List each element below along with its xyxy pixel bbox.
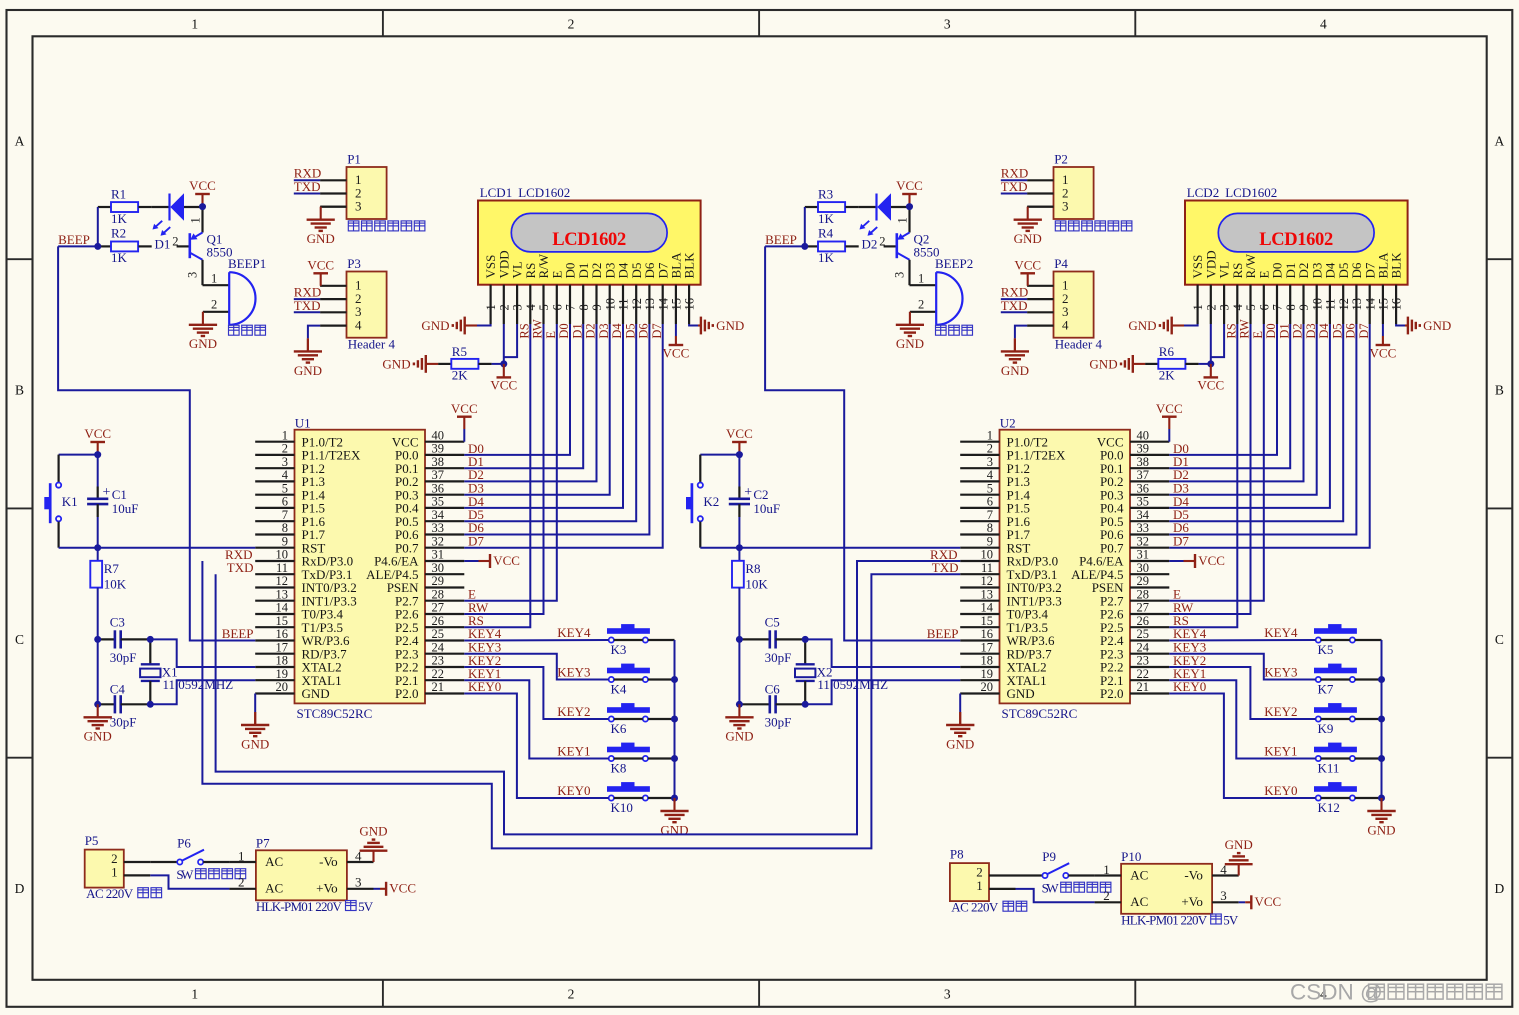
wire P-in pin1 to module [150, 875, 229, 888]
svg-text:K3: K3 [611, 642, 627, 657]
net label RS rotated [1225, 323, 1239, 338]
svg-text:1: 1 [918, 272, 924, 286]
module P7 HLK-PM01 [229, 836, 373, 901]
svg-text:29: 29 [432, 574, 445, 588]
svg-text:D: D [15, 881, 25, 896]
svg-text:10K: 10K [745, 577, 768, 592]
pin 37 P0.2 [1100, 468, 1169, 489]
push button K4 [608, 664, 650, 696]
wire key to rail [648, 639, 675, 641]
svg-text:C4: C4 [110, 682, 126, 697]
net label D6 [1173, 520, 1189, 535]
svg-text:18: 18 [981, 654, 994, 668]
svg-text:4: 4 [282, 468, 289, 482]
net label D3 rotated [597, 323, 611, 338]
svg-text:11.0592MHZ: 11.0592MHZ [817, 677, 888, 692]
net label D4 [468, 494, 484, 509]
svg-text:10K: 10K [104, 577, 127, 592]
svg-text:3: 3 [1062, 199, 1069, 214]
net label BEEP [58, 232, 98, 247]
svg-text:18: 18 [276, 654, 289, 668]
pin 4 P1.3 [960, 468, 1030, 489]
resistor R5 [438, 344, 504, 382]
wire D0 bus [1169, 324, 1277, 455]
svg-text:R1: R1 [111, 186, 126, 201]
svg-text:13: 13 [276, 587, 289, 601]
svg-text:GND: GND [1225, 837, 1253, 852]
svg-text:KEY0: KEY0 [557, 783, 590, 798]
svg-text:AC: AC [1130, 867, 1148, 882]
pin 25 P2.4 [395, 627, 464, 648]
svg-text:KEY3: KEY3 [1264, 665, 1297, 680]
svg-text:1: 1 [976, 878, 983, 893]
svg-text:12: 12 [630, 298, 644, 311]
pin 30 ALE/P4.5 [366, 561, 464, 582]
svg-text:2: 2 [1204, 304, 1218, 310]
pin 32 P0.7 [1100, 534, 1169, 555]
switch P6 [150, 836, 229, 865]
svg-text:2: 2 [211, 298, 217, 312]
svg-text:BLK: BLK [1389, 252, 1404, 279]
svg-text:10: 10 [981, 548, 994, 562]
wire key to rail [1355, 678, 1382, 680]
svg-text:30: 30 [1137, 561, 1150, 575]
svg-text:C3: C3 [110, 614, 125, 629]
svg-text:5: 5 [282, 481, 288, 495]
svg-text:2: 2 [568, 17, 575, 32]
ground GND under buzzer [909, 311, 911, 313]
svg-text:25: 25 [432, 627, 445, 641]
push button K3 [608, 625, 650, 657]
wire RXD serial crossover [202, 561, 960, 848]
junction BEEP [94, 243, 101, 250]
net label KEY0 at key [557, 783, 590, 798]
net label D6 rotated [1344, 323, 1358, 338]
junction RST [736, 544, 743, 551]
ground GND at pin3 [1028, 206, 1054, 208]
svg-text:3: 3 [355, 199, 362, 214]
svg-text:D2: D2 [862, 236, 878, 251]
power VCC at pin40 [451, 401, 478, 442]
ground GND at BLK [689, 324, 701, 326]
svg-text:14: 14 [656, 297, 670, 310]
net label D5 rotated [623, 323, 637, 338]
svg-text:LCD1602: LCD1602 [1259, 230, 1333, 250]
net label D1 [1173, 454, 1189, 469]
comment AC 220V input [86, 886, 162, 901]
svg-text:C: C [1495, 632, 1504, 647]
svg-text:21: 21 [432, 680, 445, 694]
net label KEY1 at key [557, 744, 590, 759]
svg-text:2: 2 [282, 442, 288, 456]
wire E [464, 324, 557, 601]
svg-text:GND: GND [84, 729, 112, 744]
svg-text:11: 11 [1324, 298, 1338, 310]
svg-text:28: 28 [1137, 587, 1150, 601]
svg-text:14: 14 [1363, 297, 1377, 310]
svg-text:6: 6 [1257, 304, 1271, 310]
ground GND at pin20 [254, 694, 256, 725]
pin 34 P0.5 [395, 508, 464, 529]
power VCC at reset [726, 426, 753, 454]
svg-text:2: 2 [497, 304, 511, 310]
pin 15 T1/P3.5 [960, 614, 1048, 635]
net label KEY2 [468, 653, 501, 668]
net label RW rotated [531, 319, 545, 339]
svg-text:7: 7 [564, 304, 578, 310]
svg-text:20: 20 [981, 680, 994, 694]
pin 31 P4.6/EA [1079, 548, 1169, 569]
junction XTAL-top [802, 636, 809, 643]
svg-text:+Vo: +Vo [1181, 894, 1203, 909]
svg-text:15: 15 [276, 614, 289, 628]
junction VCC/K/C [94, 451, 101, 458]
ground GND reset rail [725, 704, 753, 743]
wire D4 bus [464, 324, 623, 508]
svg-text:VCC: VCC [307, 258, 334, 273]
svg-text:3: 3 [987, 455, 993, 469]
svg-text:KEY1: KEY1 [1264, 744, 1297, 759]
pin 12 D5 [629, 263, 644, 324]
wire VL [504, 324, 517, 357]
ground GND at -Vo [1225, 837, 1253, 876]
LCD module LCD1 LCD1602 [478, 185, 701, 285]
pin 28 P2.7 [395, 587, 464, 608]
svg-text:7: 7 [1271, 304, 1285, 310]
junction BEEP [801, 243, 808, 250]
pin 40 VCC [1097, 428, 1170, 449]
svg-text:10uF: 10uF [112, 501, 139, 516]
junction C-bottom [736, 701, 743, 708]
junction VDD/R/VCC [500, 360, 507, 367]
pin 36 P0.3 [395, 481, 464, 502]
ground GND reset rail [84, 704, 112, 743]
svg-text:21: 21 [1137, 680, 1150, 694]
power VCC at pin1 [307, 258, 334, 286]
ground GND at R [426, 363, 438, 365]
pin 2 VDD [496, 250, 511, 324]
capacitor C5 30pF [739, 614, 805, 665]
svg-text:26: 26 [432, 614, 445, 628]
wire RST left [98, 547, 256, 549]
wire RS [1169, 324, 1237, 627]
pin 7 P1.6 [960, 508, 1030, 529]
wire R-left rail [97, 207, 99, 246]
wire D4 bus [1169, 324, 1330, 508]
wire rail C-GND [738, 639, 740, 704]
svg-text:GND: GND [1128, 318, 1156, 333]
junction XTAL-bottom [802, 701, 809, 708]
resistor R8 10K [732, 548, 768, 640]
wire KEY3 [464, 654, 608, 680]
wire R-left rail [804, 207, 806, 246]
wire D7 bus [464, 324, 662, 548]
ground GND at pin20 [959, 694, 961, 725]
svg-text:2K: 2K [452, 367, 469, 382]
ground GND at pin4 [308, 326, 320, 352]
svg-text:LCD1602: LCD1602 [1225, 185, 1277, 200]
svg-text:16: 16 [981, 627, 994, 641]
svg-text:32: 32 [1137, 534, 1150, 548]
net label BEEP at pin16 [222, 626, 254, 641]
svg-text:B: B [15, 383, 24, 398]
svg-text:11: 11 [617, 298, 631, 310]
pin 12 INT0/P3.2 [255, 574, 357, 595]
ground GND at VSS [1172, 324, 1198, 326]
pin 2 VDD [1203, 250, 1218, 324]
pin 10 RxD/P3.0 [960, 548, 1058, 569]
svg-text:K4: K4 [611, 681, 627, 696]
svg-text:GND: GND [189, 336, 217, 351]
net label TXD [294, 298, 321, 313]
svg-text:11: 11 [276, 561, 288, 575]
wire VL [1211, 324, 1224, 357]
svg-text:-Vo: -Vo [1184, 867, 1203, 882]
svg-text:P10: P10 [1121, 849, 1141, 864]
svg-text:13: 13 [643, 298, 657, 311]
pin 4 P1.3 [255, 468, 325, 489]
svg-text:7: 7 [282, 508, 288, 522]
svg-text:P8: P8 [950, 847, 964, 862]
net label TXD [294, 179, 321, 194]
svg-text:27: 27 [432, 601, 445, 615]
pin 5 R/W [1243, 253, 1258, 324]
svg-text:VCC: VCC [1198, 553, 1225, 568]
svg-text:40: 40 [1137, 428, 1150, 442]
svg-text:4: 4 [1062, 317, 1069, 332]
wire D6 bus [464, 324, 649, 535]
comment HLK-PM01 220V to 5V [1121, 912, 1239, 927]
wire key to rail [648, 678, 675, 680]
svg-text:4: 4 [1231, 304, 1245, 311]
svg-text:30pF: 30pF [110, 715, 137, 730]
switch P9 [1016, 849, 1095, 878]
svg-text:32: 32 [432, 534, 445, 548]
net label D4 rotated [610, 323, 624, 339]
svg-text:GND: GND [302, 686, 330, 701]
svg-text:8: 8 [987, 521, 993, 535]
net label RXD [1001, 285, 1028, 300]
net label E [468, 587, 476, 602]
connector P8 AC input [950, 847, 1016, 901]
junction C-bottom [94, 701, 101, 708]
wire key ground rail [1381, 640, 1383, 798]
svg-text:3: 3 [1218, 304, 1232, 310]
net label E rotated [1251, 331, 1265, 339]
pin 29 PSEN [387, 574, 465, 595]
svg-text:14: 14 [276, 601, 289, 615]
pin 12 INT0/P3.2 [960, 574, 1062, 595]
svg-text:31: 31 [1137, 548, 1150, 562]
svg-text:1: 1 [191, 987, 198, 1002]
wire KEY0 [464, 694, 608, 799]
svg-text:1: 1 [1103, 862, 1110, 877]
svg-text:30pF: 30pF [765, 650, 792, 665]
pin 9 RST [255, 534, 325, 555]
pin 5 R/W [536, 253, 551, 324]
pin 7 P1.6 [255, 508, 325, 529]
svg-text:VCC: VCC [663, 346, 690, 361]
junction XTAL-top [147, 636, 154, 643]
svg-text:6: 6 [987, 495, 993, 509]
svg-text:GND: GND [294, 363, 322, 378]
LED D2 [859, 193, 910, 251]
pin 6 P1.5 [255, 495, 325, 516]
ground GND keys [660, 798, 688, 837]
svg-text:GND: GND [359, 824, 387, 839]
power VCC below junction [1197, 364, 1224, 393]
push button K5 [1315, 625, 1357, 657]
svg-text:R2: R2 [111, 226, 126, 241]
pin 6 E [549, 271, 564, 325]
svg-text:VCC: VCC [726, 426, 753, 441]
ground GND keys [1367, 798, 1395, 837]
pin 11 D4 [1323, 262, 1338, 324]
svg-text:1K: 1K [111, 211, 128, 226]
junction VDD/R/VCC [1207, 360, 1214, 367]
pin 12 D5 [1336, 263, 1351, 324]
pin 35 P0.4 [1100, 495, 1169, 516]
svg-text:VCC: VCC [1197, 378, 1224, 393]
svg-text:U1: U1 [295, 416, 311, 431]
svg-text:-Vo: -Vo [319, 854, 338, 869]
pin 5 P1.4 [960, 481, 1030, 502]
svg-text:33: 33 [432, 521, 445, 535]
svg-text:KEY2: KEY2 [557, 704, 590, 719]
pin 13 INT1/P3.3 [255, 587, 357, 608]
net label D1 [468, 454, 484, 469]
svg-text:GND: GND [307, 231, 335, 246]
pin 7 D0 [1270, 263, 1285, 324]
pin 15 BLA [669, 252, 684, 324]
net label RXD at pin10 [225, 547, 252, 562]
pin 8 D1 [576, 263, 591, 324]
power VCC at LED [189, 178, 216, 206]
svg-text:K7: K7 [1318, 681, 1334, 696]
junction key rail [671, 795, 678, 802]
net label RS [468, 613, 484, 628]
wire key to rail [1355, 757, 1382, 759]
svg-text:GND: GND [1007, 686, 1035, 701]
push button K9 [1315, 704, 1357, 736]
svg-text:8: 8 [1284, 304, 1298, 310]
junction C-top [94, 636, 101, 643]
svg-text:BEEP: BEEP [927, 626, 959, 641]
crystal X2 11.0592MHZ [795, 639, 888, 704]
svg-text:1: 1 [238, 849, 245, 864]
svg-text:24: 24 [432, 640, 445, 654]
pin 22 P2.1 [1100, 667, 1169, 688]
pin 27 P2.6 [395, 601, 464, 622]
net label D1 rotated [570, 323, 584, 338]
wire to XTAL2 pin [805, 639, 960, 667]
pin 25 P2.4 [1100, 627, 1169, 648]
pin 13 D6 [642, 262, 657, 324]
svg-text:9: 9 [987, 534, 993, 548]
net label D2 rotated [584, 323, 598, 338]
svg-text:KEY4: KEY4 [557, 625, 591, 640]
svg-text:13: 13 [981, 587, 994, 601]
svg-text:28: 28 [432, 587, 445, 601]
svg-text:P7: P7 [256, 836, 270, 851]
connector P2 serial header [1027, 152, 1094, 220]
net label D7 rotated [1357, 323, 1371, 338]
wire KEY4 [1169, 639, 1315, 642]
net label RW rotated [1238, 319, 1252, 339]
junction key rail [1378, 716, 1385, 723]
microcontroller U1 STC89C52RC [295, 416, 426, 722]
wire to XTAL1 pin [805, 680, 960, 704]
ground GND under buzzer [202, 311, 204, 313]
svg-text:TXD: TXD [1001, 179, 1028, 194]
svg-text:9: 9 [590, 304, 604, 310]
pin 36 P0.3 [1100, 481, 1169, 502]
svg-text:+: + [744, 485, 752, 500]
svg-text:VCC: VCC [451, 401, 478, 416]
svg-text:P5: P5 [85, 833, 99, 848]
svg-text:35: 35 [432, 495, 445, 509]
wire key to rail [1355, 718, 1382, 720]
comment SW rocker switch [176, 867, 245, 882]
net label D7 rotated [650, 323, 664, 338]
svg-text:C5: C5 [765, 614, 780, 629]
power VCC at BLA [663, 324, 690, 361]
net label KEY0 at key [1264, 783, 1297, 798]
pin 3 VL [1217, 261, 1232, 324]
svg-text:17: 17 [981, 640, 994, 654]
junction LED/VCC [199, 203, 206, 210]
wire D0 bus [464, 324, 570, 455]
svg-text:38: 38 [1137, 455, 1150, 469]
pin 28 P2.7 [1100, 587, 1169, 608]
svg-text:BEEP: BEEP [765, 232, 797, 247]
net label D1 rotated [1277, 323, 1291, 338]
svg-text:LCD2: LCD2 [1187, 185, 1220, 200]
pin 8 P1.7 [255, 521, 325, 542]
wire D5 bus [1169, 324, 1343, 521]
pin 10 D3 [602, 263, 617, 324]
pin 16 WR/P3.6 [255, 627, 350, 648]
svg-text:VCC: VCC [84, 426, 111, 441]
svg-text:24: 24 [1137, 640, 1150, 654]
svg-text:D: D [1495, 881, 1505, 896]
pin 1 VSS [1190, 255, 1205, 324]
svg-text:2: 2 [568, 987, 575, 1002]
svg-text:K2: K2 [703, 494, 719, 509]
pin 11 TxD/P3.1 [960, 561, 1057, 582]
net label RXD [294, 285, 321, 300]
wire E [1169, 324, 1264, 601]
comment HLK-PM01 220V to 5V [256, 899, 374, 914]
buzzer BEEP2 [910, 256, 974, 325]
pin 26 P2.5 [395, 614, 464, 635]
svg-text:K12: K12 [1318, 800, 1340, 815]
connector P3 Header 4 [320, 256, 395, 352]
resistor R6 [1145, 344, 1211, 382]
svg-text:VCC: VCC [1014, 258, 1041, 273]
pin 34 P0.5 [1100, 508, 1169, 529]
svg-text:GND: GND [421, 318, 449, 333]
svg-text:11: 11 [981, 561, 993, 575]
svg-text:3: 3 [355, 874, 362, 889]
svg-text:11.0592MHZ: 11.0592MHZ [163, 677, 234, 692]
net label D4 [1173, 494, 1189, 509]
net label D2 [468, 467, 484, 482]
net label KEY2 [1173, 653, 1206, 668]
wire RS [464, 324, 530, 627]
net label D0 [468, 441, 484, 456]
svg-text:30pF: 30pF [765, 715, 792, 730]
